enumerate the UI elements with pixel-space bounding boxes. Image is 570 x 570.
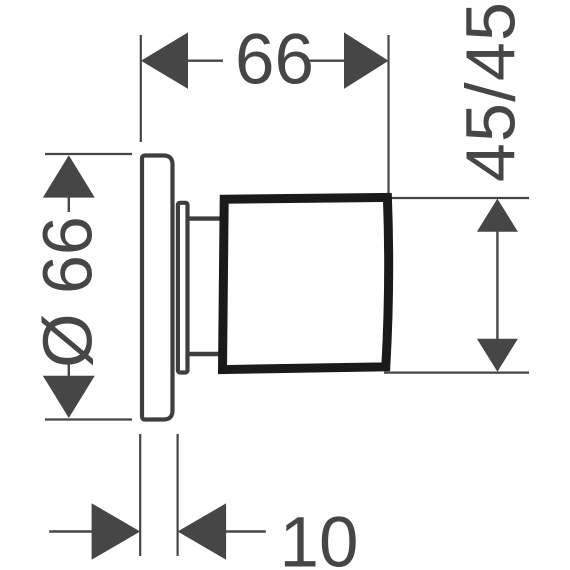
dim10 left arrowhead xyxy=(92,503,141,559)
svg-text:Ø 66: Ø 66 xyxy=(29,216,107,368)
dim45 down arrowhead xyxy=(477,339,518,372)
dim66 right tail wire xyxy=(310,60,346,62)
dim66 left arrowhead xyxy=(141,32,188,89)
dia66 top extension line xyxy=(45,153,132,155)
dim10 right arrowhead xyxy=(178,503,227,559)
escutcheon plate side view xyxy=(142,156,173,420)
dim45 bottom extension line xyxy=(384,372,529,374)
dim66 left extension line xyxy=(140,35,142,142)
dim45 up arrowhead xyxy=(477,199,518,232)
dia66 up arrowhead xyxy=(43,155,95,197)
dim45 top extension line xyxy=(384,197,529,199)
dia66 lower tail wire xyxy=(68,361,70,377)
dim45 line wire xyxy=(496,231,498,340)
handle knob outline xyxy=(223,197,389,369)
cartridge sleeve top wire xyxy=(188,216,223,220)
svg-text:10: 10 xyxy=(280,504,359,570)
svg-text:66: 66 xyxy=(235,21,314,100)
mounting sleeve ring xyxy=(178,203,188,373)
dim66 left tail wire xyxy=(187,60,223,62)
dim66 right arrowhead xyxy=(344,32,389,89)
svg-text:45/45: 45/45 xyxy=(452,1,530,182)
dia66 down arrowhead xyxy=(43,376,95,418)
dim10 left tail wire xyxy=(49,530,93,532)
dim10 left extension line xyxy=(139,434,141,556)
dim10 right extension line xyxy=(177,434,179,556)
dia66 upper tail wire xyxy=(68,196,70,212)
dim66 right extension line xyxy=(387,35,389,201)
dim10 right tail wire xyxy=(225,530,266,532)
cartridge sleeve bottom wire xyxy=(188,352,223,356)
dia66 bottom extension line xyxy=(45,418,132,420)
